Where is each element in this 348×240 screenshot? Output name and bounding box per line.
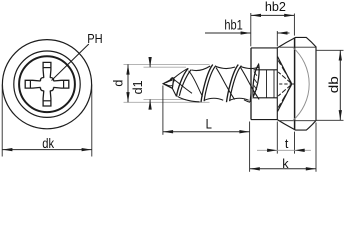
svg-text:PH: PH bbox=[87, 32, 102, 46]
svg-text:d1: d1 bbox=[131, 80, 145, 94]
svg-text:t: t bbox=[285, 137, 289, 151]
svg-text:hb1: hb1 bbox=[224, 17, 242, 32]
svg-text:dk: dk bbox=[42, 136, 54, 151]
svg-text:d: d bbox=[111, 80, 125, 87]
svg-text:hb2: hb2 bbox=[265, 0, 286, 14]
svg-text:k: k bbox=[282, 157, 289, 171]
svg-text:db: db bbox=[326, 76, 341, 93]
svg-text:L: L bbox=[206, 115, 212, 131]
